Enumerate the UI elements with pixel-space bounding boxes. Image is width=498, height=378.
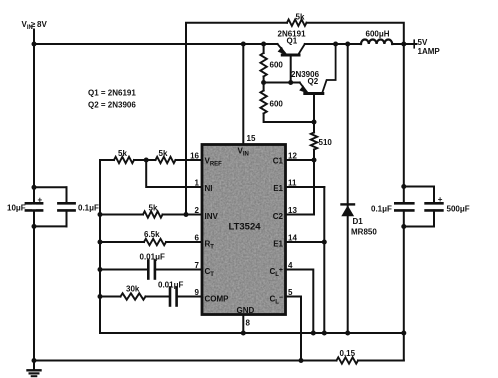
- svg-text:1: 1: [195, 179, 200, 188]
- svg-text:0.1μF: 0.1μF: [371, 205, 392, 214]
- svg-text:4: 4: [288, 261, 293, 270]
- svg-text:≥: ≥: [31, 20, 36, 29]
- svg-text:E1: E1: [273, 240, 283, 249]
- svg-text:30k: 30k: [126, 285, 140, 294]
- svg-text:LT3524: LT3524: [229, 222, 262, 233]
- svg-text:+: +: [38, 196, 43, 205]
- svg-text:C1: C1: [273, 157, 284, 166]
- svg-text:COMP: COMP: [205, 295, 230, 304]
- svg-text:600: 600: [270, 100, 284, 109]
- svg-text:1AMP: 1AMP: [418, 47, 441, 56]
- svg-text:0.15: 0.15: [340, 349, 356, 358]
- svg-text:5: 5: [288, 288, 293, 297]
- svg-text:+: +: [438, 195, 443, 204]
- svg-text:8V: 8V: [37, 20, 47, 29]
- svg-text:500μF: 500μF: [447, 205, 470, 214]
- svg-text:Q2 = 2N3906: Q2 = 2N3906: [88, 101, 136, 110]
- svg-text:0.01μF: 0.01μF: [158, 281, 183, 290]
- svg-text:Q2: Q2: [308, 77, 319, 86]
- svg-text:GND: GND: [237, 306, 255, 315]
- svg-text:Q1: Q1: [287, 37, 298, 46]
- svg-text:6: 6: [195, 234, 200, 243]
- svg-text:5k: 5k: [118, 149, 127, 158]
- svg-text:0.1μF: 0.1μF: [78, 204, 99, 213]
- svg-text:15: 15: [247, 134, 256, 143]
- svg-text:9: 9: [195, 288, 200, 297]
- svg-text:5k: 5k: [159, 149, 168, 158]
- svg-text:INV: INV: [205, 212, 219, 221]
- svg-text:10μF: 10μF: [7, 203, 26, 212]
- svg-text:16: 16: [190, 152, 199, 161]
- svg-text:13: 13: [288, 206, 297, 215]
- svg-text:5V: 5V: [418, 38, 428, 47]
- svg-text:14: 14: [288, 234, 297, 243]
- svg-text:C2: C2: [273, 212, 284, 221]
- svg-text:6.5k: 6.5k: [144, 230, 160, 239]
- svg-text:MR850: MR850: [351, 228, 377, 237]
- svg-text:11: 11: [288, 179, 297, 188]
- svg-text:7: 7: [195, 261, 200, 270]
- svg-text:D1: D1: [353, 217, 364, 226]
- svg-text:5k: 5k: [296, 13, 305, 22]
- svg-text:E1: E1: [273, 184, 283, 193]
- svg-text:600: 600: [270, 61, 284, 70]
- svg-text:600μH: 600μH: [366, 29, 390, 38]
- svg-text:5k: 5k: [149, 204, 158, 213]
- svg-text:8: 8: [246, 319, 251, 328]
- svg-text:2: 2: [195, 206, 200, 215]
- svg-text:12: 12: [288, 152, 297, 161]
- svg-text:Q1 = 2N6191: Q1 = 2N6191: [88, 89, 136, 98]
- svg-text:0.01μF: 0.01μF: [140, 253, 165, 262]
- svg-text:510: 510: [319, 138, 333, 147]
- svg-text:NI: NI: [205, 184, 213, 193]
